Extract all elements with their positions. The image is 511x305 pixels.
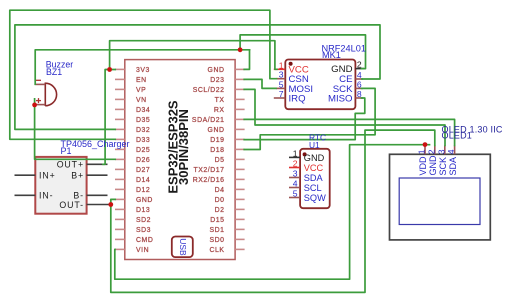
svg-text:TX2/D17: TX2/D17 [193,167,224,174]
wire GND corridor: ESP GND left to TP OUT- to bottom [111,130,435,292]
ESP32 right pin names [192,67,225,254]
ESP32 left pin names [136,67,153,254]
svg-text:2: 2 [293,159,298,169]
RTC pin1 indicator dot [303,152,307,156]
ESP32 module body [125,60,235,260]
svg-text:CMD: CMD [136,237,153,244]
ESP32 rotated title [166,100,192,194]
svg-text:D18: D18 [210,147,224,154]
svg-text:VDD: VDD [418,156,428,176]
wire SDA/D21 to OLED SDA [244,119,454,145]
wire D23-MOSI [244,79,276,88]
svg-text:VP: VP [136,87,146,94]
svg-text:D34: D34 [136,107,150,114]
NRF24L01 left pin numbers [279,60,284,99]
junction dot buzzer+ [32,103,37,108]
svg-text:SDA: SDA [448,157,458,176]
junction dot TP OUT- [108,202,113,207]
svg-text:D23: D23 [210,77,224,84]
wire buzzer+ to ESP D26 [35,99,116,160]
TP4056 right pin stubs [87,164,110,204]
svg-text:OUT-: OUT- [59,200,84,210]
svg-text:SD1: SD1 [209,227,224,234]
OLED label [442,124,503,140]
svg-text:D19: D19 [210,137,224,144]
NRF24L01 label [322,44,366,61]
Buzzer body [45,83,56,107]
svg-text:3V3: 3V3 [136,67,150,74]
svg-text:1: 1 [417,149,427,154]
svg-text:GND: GND [304,153,325,163]
RTC label [309,133,326,150]
svg-text:3: 3 [436,149,446,154]
wire D33-CSN outer loop [10,10,277,139]
NRF24L01 left pin names [289,65,314,105]
svg-text:1: 1 [293,148,298,158]
TP4056 pin names [39,160,84,210]
RTC pin names [304,153,326,203]
TP4056 left pin stubs [15,175,36,195]
svg-text:U1: U1 [309,140,320,150]
svg-text:MISO: MISO [328,93,353,104]
svg-text:D0: D0 [215,197,225,204]
svg-text:D2: D2 [215,207,225,214]
svg-text:CLK: CLK [209,247,224,254]
OLED pin stubs [425,145,455,155]
OLED screen rect [399,178,480,225]
svg-text:OLED1: OLED1 [442,131,473,141]
svg-text:RX: RX [214,107,225,114]
svg-text:D5: D5 [215,157,225,164]
svg-text:D32: D32 [136,127,150,134]
svg-text:IN-: IN- [39,191,53,201]
OLED pin numbers (rotated) [417,149,457,154]
svg-text:SDA: SDA [304,173,324,183]
svg-text:2: 2 [426,149,436,154]
svg-text:OUT+: OUT+ [57,160,84,170]
svg-text:TX: TX [215,97,225,104]
Buzzer polarity signs [36,80,41,103]
svg-text:4: 4 [293,179,298,189]
svg-text:EN: EN [136,77,147,84]
TP4056 label [61,139,130,156]
junction dot OLED VDD [423,142,428,147]
wire GND: upper corridor to NRF pin2 [240,35,365,69]
svg-text:D12: D12 [136,187,150,194]
svg-text:SCL/D22: SCL/D22 [193,87,225,94]
OLED pin names (rotated) [418,155,458,176]
wire GND: buzzer- riser [35,50,249,85]
svg-text:USB: USB [178,238,188,256]
ESP32 right pin stubs [235,69,245,249]
svg-text:IRQ: IRQ [289,93,306,104]
svg-text:VCC: VCC [304,163,324,173]
svg-text:3: 3 [293,169,298,179]
svg-text:SQW: SQW [304,193,326,203]
svg-text:MK1: MK1 [322,50,341,60]
RTC body [300,149,330,208]
svg-text:GND: GND [208,67,225,74]
svg-text:GND: GND [428,155,438,176]
svg-text:D33: D33 [136,137,150,144]
svg-text:SD2: SD2 [136,217,151,224]
wire 3V3: ESP 3V3 to NRF VCC [110,41,277,70]
wire VIN to OLED VDD [115,145,430,280]
svg-text:SD0: SD0 [209,237,224,244]
NRF24L01 right pin numbers [357,60,362,99]
Buzzer pin stubs [36,84,46,104]
ESP32 USB connector box [172,237,193,258]
svg-text:GND: GND [136,197,153,204]
svg-text:D35: D35 [136,117,150,124]
wire 3V3: down to TP4056 OUT+ [103,70,110,165]
wire D19-MISO [244,98,365,140]
junction dot GND top [238,47,243,52]
svg-text:B+: B+ [71,171,84,181]
wire D32-CE inner loop [15,25,380,129]
svg-text:30PIN/38PIN: 30PIN/38PIN [176,109,191,185]
svg-text:RX2/D16: RX2/D16 [193,177,225,184]
svg-text:7: 7 [279,89,284,99]
svg-text:GND: GND [208,127,225,134]
Buzzer label [46,59,73,77]
svg-text:3: 3 [279,70,284,80]
NRF24L01 pin1 indicator dot [289,62,293,66]
svg-text:D25: D25 [136,147,150,154]
wire D18-SCK [244,88,375,149]
svg-text:D4: D4 [215,187,225,194]
svg-text:D27: D27 [136,167,150,174]
svg-text:BZ1: BZ1 [46,67,62,77]
svg-text:D26: D26 [136,157,150,164]
svg-text:VN: VN [136,97,147,104]
NRF24L01 left pin stubs [274,69,286,98]
RTC pin stubs [289,157,300,197]
svg-text:4: 4 [446,149,456,154]
NRF24L01 right pin stubs [355,69,364,98]
ESP32 left pin stubs [115,69,125,249]
NRF24L01 right pin names [328,64,353,104]
svg-text:5: 5 [279,79,284,89]
wire GND: riser to ESP GND right pin1 [244,50,249,70]
svg-text:SDA/D21: SDA/D21 [192,117,225,124]
NRF24L01 body [285,60,355,110]
svg-text:D13: D13 [136,207,150,214]
svg-text:D14: D14 [136,177,150,184]
svg-text:P1: P1 [61,146,72,156]
RTC pin numbers [293,148,298,198]
svg-text:D15: D15 [210,217,224,224]
svg-text:VIN: VIN [136,247,149,254]
wire SCL/D22 to OLED SCK [244,89,445,145]
OLED body [390,154,491,240]
junction dot 3V3 [107,67,112,72]
svg-text:5: 5 [293,189,298,199]
svg-text:SD3: SD3 [136,227,151,234]
svg-text:SCL: SCL [304,183,322,193]
TP4056 body [35,157,86,214]
svg-text:SCK: SCK [438,157,448,176]
svg-text:IN+: IN+ [39,171,56,181]
